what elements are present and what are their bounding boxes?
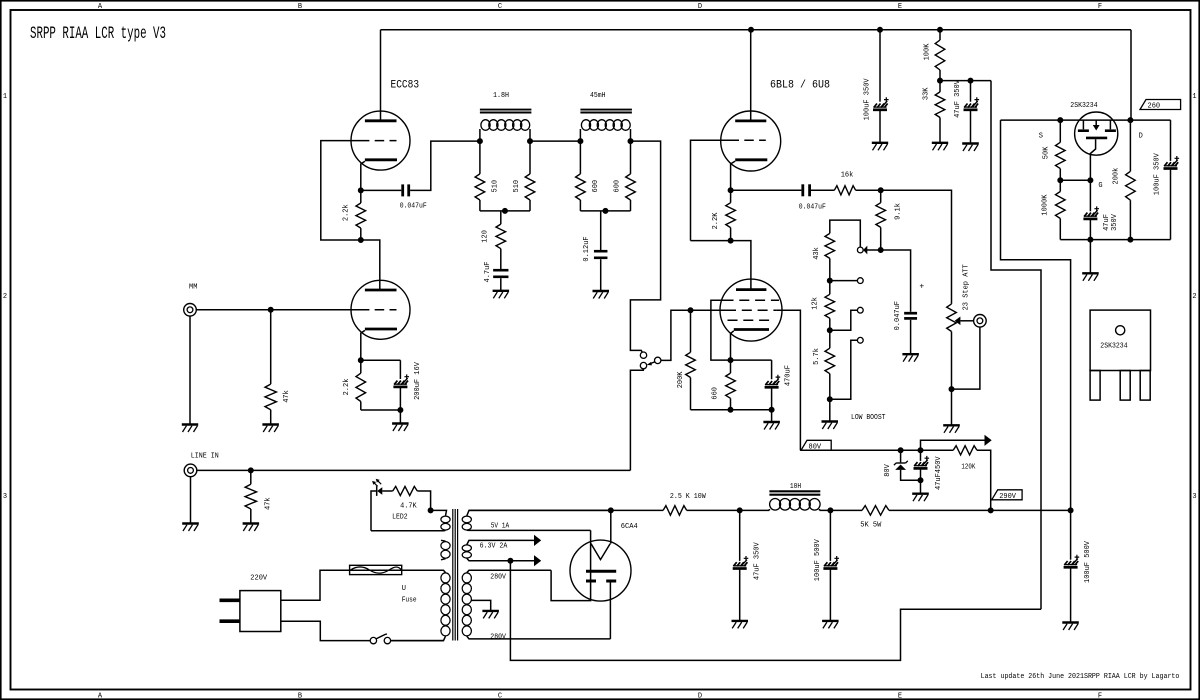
ground MM jack [182,423,198,425]
wire plug top to fuse [281,570,350,600]
node ECC83 lower cathode junction [358,358,363,363]
resistor 200k drain bleeder [1129,120,1131,171]
switch input select contact A [640,352,646,358]
svg-text:47k: 47k [283,390,291,403]
node zener top [898,448,903,453]
transistor 2SK3234 mosfet Q1 [1075,112,1118,155]
node 43k 12k junction [827,278,832,283]
svg-text:D: D [698,693,702,700]
capacitor 100uF 500V psu [829,510,831,561]
svg-text:10H: 10H [790,483,801,491]
svg-text:290V: 290V [999,493,1017,501]
node L1 1.8H bottom center [502,208,507,213]
wire SRPP mid to lower plate [361,240,380,280]
wire ECC83 lower plate lead [379,280,381,290]
capacitor 0.047uF coupling 6BL8 [801,184,804,196]
grid dashes 6U8 pentode row2 [726,309,776,311]
net flag 80V [801,440,831,450]
svg-text:3: 3 [1192,493,1196,501]
transformer spare winding left [441,539,446,542]
capacitor 100uF 350V first [879,30,881,102]
svg-text:12k: 12k [812,297,820,310]
wire wiper to 6U8 grid [661,310,726,360]
node L2 45mH right [628,139,633,144]
wire heater reference run [510,561,1041,661]
wire L2 45mH right terminal [630,129,632,141]
svg-text:0.12uF: 0.12uF [583,236,591,261]
svg-text:2SK3234: 2SK3234 [1100,342,1127,350]
grid dashes 6U8 pentode row3 [728,319,775,321]
switch input select contact C [640,362,646,368]
wire 80V feed arrow [921,440,985,450]
arrow 6.3V bottom [534,555,541,566]
wire 4.7uF to ground [500,278,502,291]
svg-text:1.8H: 1.8H [493,92,509,100]
node 47uF450V top [918,448,923,453]
svg-text:LOW BOOST: LOW BOOST [851,414,886,422]
wire 6BL8 triode grid to SRPP mid [691,140,730,240]
wire 6U8 suppressor tie to cathode [711,300,731,360]
ground under 0.047uF [902,353,919,355]
svg-text:1: 1 [1192,93,1196,101]
wire 2SK3234 box top rail [1001,119,1171,121]
wire ECC83 lower cathode lead [361,330,365,360]
wire 80V rail [800,449,953,451]
wire 6CA4 cathode to B+ rail [610,510,612,543]
wire 6U8 screen to 80V riser [776,310,800,450]
svg-text:5V 1A: 5V 1A [491,523,510,531]
wire LED cathode side [371,491,377,531]
switch power lever [376,634,387,639]
wire L1 1.8H left terminal [479,129,481,141]
node gate node [1088,178,1093,183]
ground LINE IN jack [182,522,199,524]
svg-text:350V: 350V [1111,213,1119,231]
svg-text:120: 120 [482,230,490,243]
resistor 12k [825,294,835,318]
transformer 6.3V winding [467,540,535,544]
package hole [1116,326,1125,335]
svg-text:2.2k: 2.2k [343,379,351,396]
wire top B+ rail [381,29,1132,31]
wire 9.1k to low-boost wiper [866,249,881,251]
arrow 6.3V top [534,535,541,546]
node gate node left [1058,178,1063,183]
resistor 1000K gate divider [1059,180,1061,191]
svg-text:5K 5W: 5K 5W [860,521,882,529]
wire LINE jack sleeve to ground [190,477,192,524]
node 100uF 500V top [828,508,833,513]
switch input select wiper B [655,357,661,363]
svg-text:2SK3234: 2SK3234 [1070,102,1097,110]
svg-text:Last update 26th June 2021SRPP: Last update 26th June 2021SRPP RIAA LCR … [981,673,1180,681]
wire junction to contact 2 [830,310,858,330]
wire SRPP mid to 6U8 pentode plate [691,241,751,290]
wire 6U8 cathode bottom rail [691,409,772,411]
wire box bottom rail [1060,239,1170,241]
wire MM jack sleeve to ground [189,316,191,424]
wire wiper to output jack [960,320,973,322]
wire 6CA4 plate1 left riser [551,530,591,600]
ground under pot [943,424,960,426]
resistor 9.1k [880,190,882,202]
wire fuse to primary [402,569,444,571]
svg-text:100K: 100K [923,43,931,61]
wire 43k to 12k [829,258,831,294]
wire L2 45mH bottom rail [580,210,630,212]
svg-text:23 Step ATT: 23 Step ATT [963,264,971,310]
svg-text:D: D [698,3,702,11]
LED emission arrows [373,480,381,486]
svg-text:ECC83: ECC83 [391,79,420,91]
resistor 510 left [479,141,481,174]
wire switch to primary [391,640,444,642]
ground under 4.7uF [493,290,510,292]
svg-text:600: 600 [592,180,600,193]
svg-text:260: 260 [1148,103,1161,111]
wire HV center tap [471,600,490,611]
svg-text:47uF 350V: 47uF 350V [754,542,762,581]
svg-text:G: G [1098,182,1102,190]
svg-text:600: 600 [614,180,622,193]
resistor 660 6U8 cathode [730,360,732,373]
node 6CA4 cathode tap [608,508,613,513]
node 290V junction [988,508,993,513]
6CA4 cathode bar [586,570,616,573]
tube ECC83 lower triode V1b [351,280,410,339]
node 6U8 grid 200K junction [688,308,693,313]
wire divider node right [940,80,991,82]
node box bottom at 200k [1128,237,1133,242]
svg-text:470uF: 470uF [785,365,793,386]
ground under 2SK3234 box [1082,272,1099,274]
pot wiper arrow [955,317,961,326]
svg-text:S: S [1039,132,1043,140]
svg-text:C: C [498,3,502,11]
wire coupling cap up to LCR input [410,141,480,190]
wire junction to contact 1 [830,280,858,282]
wire 2.5K to choke [687,509,770,511]
wire L1 1.8H right terminal [529,129,531,141]
resistor 47k MM grid leak [270,310,272,384]
connector output jack [974,315,987,328]
svg-text:47uF: 47uF [1103,214,1111,231]
wire cathode node to coupling cap [361,189,402,191]
switch power contacts [370,637,376,643]
diode LED2 [376,486,378,496]
capacitor 100uF 500V output [1070,510,1072,559]
svg-text:SRPP RIAA LCR type V3: SRPP RIAA LCR type V3 [30,24,166,44]
svg-text:B: B [298,3,302,11]
wire B+ line left [469,509,663,511]
node 6BL8 cathode junction [728,188,733,193]
svg-text:120K: 120K [961,463,976,471]
switch low boost wiper arrow [863,246,867,255]
node MM 47k junction [268,307,273,312]
6CA4 plates V [591,544,610,560]
svg-text:47uF 350V: 47uF 350V [954,79,962,118]
wire MM input to grid [196,309,360,311]
switch low boost contact 0 [857,247,863,253]
svg-text:9.1k: 9.1k [895,203,903,220]
resistor 33K heater divider [939,81,941,92]
svg-text:200uF 16V: 200uF 16V [414,361,422,400]
inductor 10H core [769,490,820,492]
svg-text:2.2k: 2.2k [343,204,351,221]
svg-text:100uF 500V: 100uF 500V [814,538,822,581]
svg-text:2: 2 [3,293,7,301]
wire heater bias feed [991,81,1041,610]
resistor 2.2k ECC83 upper cathode [360,190,362,203]
svg-text:C: C [498,693,502,700]
wire top rail down to 2SK3234 box [1130,30,1132,120]
capacitor 47uF 350V psu [739,510,741,561]
ground under 100uF 500V [822,620,839,622]
svg-text:50K: 50K [1043,146,1051,159]
wire 43k top feed [830,220,861,247]
ground under 47k LINE [243,522,260,524]
wire mosfet gate lead [1090,139,1095,180]
svg-text:Fuse: Fuse [402,596,417,604]
node 47uF 350V psu top [737,508,742,513]
capacitor 4.7uF [493,269,508,272]
node box top at 200k [1128,118,1133,123]
wire LINE IN to contact C [630,369,643,471]
ground under 47uF 350V [962,142,979,144]
switch low boost contact 3 [857,337,863,343]
node zener cap ground junction [918,478,923,483]
svg-text:D: D [1139,132,1143,140]
node pot bottom junction [949,387,954,392]
inductor L2 45mH core [580,109,632,111]
ground under low boost chain [822,420,839,422]
svg-text:47k: 47k [265,497,273,510]
fuse U [350,565,402,574]
svg-text:200K: 200K [677,371,685,389]
potentiometer 23 Step ATT [947,304,957,332]
node 9.1k bottom junction [878,248,883,253]
wire to ground under 470uF [771,410,773,422]
capacitor 47uF 350V divider [970,81,972,102]
node 100K 33K junction [938,78,943,83]
svg-text:220V: 220V [250,575,268,583]
svg-text:4.7uF: 4.7uF [484,261,492,282]
transformer primary winding [320,570,446,572]
ground under 100uF 500V output [1062,621,1079,623]
svg-text:280V: 280V [490,633,506,641]
wire between LCR sections [530,140,580,142]
resistor 600 left [579,141,581,174]
svg-text:0.047uF: 0.047uF [400,203,427,211]
resistor 120 of 1.8H section [500,211,502,224]
wire ECC83 upper plate lead [380,30,382,121]
switch input select lever [650,362,655,364]
package TO-220 2SK3234 outline [1090,310,1150,370]
svg-text:U: U [402,585,406,593]
svg-text:1: 1 [3,93,7,101]
wire 120K to 290V node [977,450,991,510]
svg-text:43k: 43k [813,247,821,260]
node 200uF ground junction [398,408,403,413]
wire 6U8 pentode cathode lead [731,331,734,360]
tube ECC83 upper triode V1a [351,111,410,170]
svg-text:MM: MM [189,283,197,291]
tube 6CA4 rectifier V3 [570,540,631,601]
wire gate node [1060,179,1090,181]
ground under 33K [932,142,948,144]
svg-text:1000K: 1000K [1042,194,1050,216]
resistor 100K heater divider [939,30,941,40]
resistor 510 right [529,141,531,174]
capacitor 47uF 350V gate [1089,180,1091,211]
wire ECC83 upper cathode lead [361,161,365,190]
wire 12k to 5.7k [829,318,831,348]
wire 16k to attenuator feed [856,190,952,304]
inductor L1 1.8H winding [481,120,490,131]
diode zener 80V [900,450,902,462]
node L2 45mH bottom center [603,208,608,213]
node 6BL8 SRPP mid junction [728,238,733,243]
svg-text:6BL8 / 6U8: 6BL8 / 6U8 [770,79,830,91]
node LINE IN 47k junction [248,468,253,473]
resistor 2.2K 6BL8 cathode [730,190,732,202]
resistor 2.5 K 10W [663,506,687,516]
junction top rail at 100uF [878,27,883,32]
wire 9.1k to 0.047uF shunt [881,250,911,312]
wire 0.047uF to ground [910,320,912,354]
wire jack sleeve down [952,327,980,389]
svg-text:80V: 80V [884,463,892,476]
inductor L1 1.8H core [480,109,532,111]
node L2 45mH left [578,139,583,144]
svg-text:F: F [1098,3,1102,11]
resistor 600 right [630,141,632,174]
wire ECC83 upper grid loop [321,141,361,240]
node L1 1.8H right [528,139,533,144]
transformer core [452,509,454,641]
wire 4.7K to pilot winding [417,491,430,510]
ground HV center tap [482,610,499,612]
svg-text:100uF 350V: 100uF 350V [1154,152,1162,195]
capacitor 0.047uF coupling ECC83 [401,184,404,196]
resistor 47k LINE IN [250,470,252,484]
svg-text:+: + [919,283,924,292]
ground under 200uF [392,422,409,424]
ground under 47uF450V [912,493,929,495]
connector mains plug [240,591,281,632]
svg-text:280V: 280V [490,574,506,582]
connector MM input jack [184,304,197,317]
ground under 0.12uF [593,290,610,292]
svg-text:E: E [898,693,902,700]
svg-text:200k: 200k [1113,168,1121,185]
svg-text:660: 660 [712,387,720,400]
svg-text:6.3V 2A: 6.3V 2A [480,543,508,551]
node 6.3V heater tap [508,558,513,563]
switch low boost contact 1 [857,278,863,284]
svg-text:100uF 350V: 100uF 350V [864,78,872,121]
svg-text:100uF 500V: 100uF 500V [1084,540,1092,583]
svg-text:45mH: 45mH [590,92,606,100]
svg-text:LINE IN: LINE IN [191,453,219,461]
junction top rail at 100K [938,27,943,32]
node pilot winding top [428,508,433,513]
wire 5.7k bottom [829,374,831,422]
inductor L2 45mH winding [581,120,590,131]
wire LINE IN rail [197,469,631,471]
wire junction to contact 3 [830,340,858,399]
resistor 2.2k ECC83 lower cathode [360,360,362,373]
node ECC83 upper cathode junction [358,188,363,193]
svg-text:33K: 33K [922,87,930,100]
wire 5K to 290V node [889,509,1071,511]
capacitor 200uF 16V cathode bypass [361,360,401,379]
svg-text:5.7k: 5.7k [813,348,821,365]
node 16k 9.1k junction [878,188,883,193]
wire 6BL8 cathode to coupling cap [731,189,802,191]
transformer 5V winding [467,510,611,515]
wire cap to 16k [811,189,835,191]
resistor 4.7K LED [382,490,392,492]
wire to ground under 200uF [399,410,401,424]
resistor 5K 5W [862,506,889,516]
node box top at 50K [1058,118,1063,123]
svg-text:47uF450V: 47uF450V [935,456,943,490]
6CA4 filament bars [586,580,596,583]
node ECC83 SRPP mid junction [358,238,363,243]
svg-text:6CA4: 6CA4 [621,523,638,531]
wire box bottom to ground [1089,240,1091,274]
svg-text:510: 510 [513,180,521,193]
node box bottom at 47uF [1088,237,1093,242]
net flag 290V [992,490,1022,500]
capacitor 470uF cathode bypass [731,360,772,379]
svg-text:LED2: LED2 [392,514,408,522]
capacitor 0.047uF low boost [904,312,917,315]
node 5.7k bottom junction [827,397,832,402]
net flag 260 [1140,100,1181,110]
node B+ end junction [1068,508,1073,513]
ground under 47k MM [262,423,279,425]
svg-text:0.047uF: 0.047uF [799,204,826,212]
wire 2SK3234 output to B+ node [1001,120,1071,510]
svg-text:2: 2 [1192,293,1196,301]
transformer HV winding 280-0-280 [467,570,551,572]
svg-text:B: B [298,693,302,700]
svg-text:3: 3 [3,493,7,501]
node 470uF bottom [769,407,774,412]
node 660 bottom [728,407,733,412]
ground under 47uF psu [732,620,749,622]
node L1 1.8H left [477,139,482,144]
wire choke to 5K [820,509,863,511]
svg-text:2.2K: 2.2K [712,212,720,230]
node 6U8 cathode junction [728,358,733,363]
ground under 100uF 350V [872,142,888,144]
switch low boost contact 2 [857,307,863,313]
tube 6U8 pentode V2b [720,279,782,341]
wire 6CA4 plate2 from 280V bottom [609,581,611,639]
wire L2 45mH left terminal [579,129,581,141]
wire lower cathode bottom rail [361,409,401,411]
transformer pilot winding left [431,510,447,515]
connector LINE IN jack [184,464,197,477]
grid dashes 6U8 pentode row1 [724,299,780,301]
resistor 5.7k [825,348,835,374]
plug prongs [220,598,240,602]
node 12k 5.7k junction [827,328,832,333]
svg-text:E: E [898,3,902,11]
